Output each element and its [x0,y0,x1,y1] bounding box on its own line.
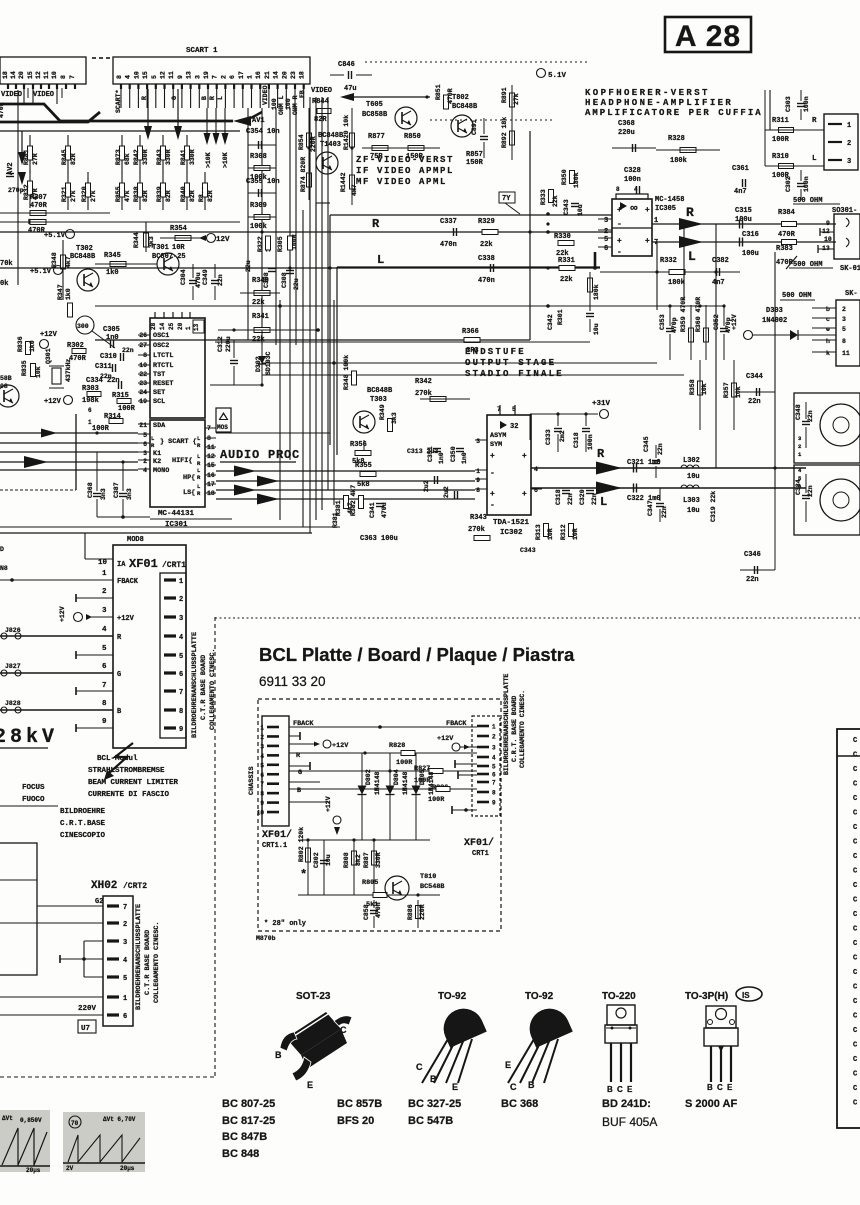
svg-text:COLLEGAMENTO CINESC.: COLLEGAMENTO CINESC. [519,690,526,768]
svg-text:C303: C303 [785,96,792,112]
svg-text:6: 6 [604,245,608,253]
svg-text:100R: 100R [428,796,445,804]
svg-text:E: E [452,1082,458,1092]
svg-text:3: 3 [476,438,480,445]
svg-text:R: R [197,460,201,467]
svg-text:C: C [853,1056,857,1064]
svg-text:L: L [197,435,201,442]
svg-text:R344: R344 [133,232,140,248]
svg-text:C: C [853,1013,857,1021]
svg-text:R330: R330 [554,233,571,241]
svg-text:T302: T302 [76,245,93,253]
svg-text:C343: C343 [563,199,570,215]
svg-text:FOCUS: FOCUS [22,784,45,792]
svg-text:330R: 330R [375,852,382,868]
svg-text:9: 9 [260,800,264,807]
svg-text:C: C [853,1027,857,1035]
svg-text:10: 10 [51,71,58,79]
svg-text:C: C [510,1082,517,1092]
svg-text:U7: U7 [81,1025,90,1033]
svg-text:2: 2 [492,734,496,741]
svg-text:C341: C341 [369,502,376,518]
svg-text:32: 32 [510,423,518,431]
svg-text:12: 12 [160,71,167,79]
svg-text:1n0: 1n0 [461,452,468,464]
svg-text:+31V: +31V [592,400,611,408]
svg-text:R840: R840 [180,186,187,202]
svg-text:E: E [307,1080,313,1090]
svg-text:10R: 10R [172,244,185,252]
svg-text:R873: R873 [115,149,122,165]
svg-text:R850: R850 [404,133,421,141]
svg-text:C: C [853,984,857,992]
svg-text:R: R [117,634,122,642]
svg-text:R: R [209,96,216,100]
svg-text:C354 10n: C354 10n [246,128,280,136]
svg-text:8: 8 [616,186,620,193]
svg-text:R842: R842 [133,149,140,165]
svg-text:100n: 100n [803,176,810,192]
svg-text:R312: R312 [560,524,567,540]
svg-text:BILDROEHRENANSCHLUSSPLATTE: BILDROEHRENANSCHLUSSPLATTE [191,632,199,738]
svg-text:C: C [853,737,857,745]
svg-text:IC301: IC301 [165,521,188,529]
svg-text:AMPLIFICATORE PER CUFFIA: AMPLIFICATORE PER CUFFIA [585,108,763,118]
svg-text:5: 5 [102,645,107,653]
svg-text:XF01: XF01 [129,557,158,571]
svg-text:4: 4 [143,467,147,474]
svg-text:C: C [717,1083,723,1092]
svg-text:C350: C350 [450,446,457,462]
svg-text:C: C [853,998,857,1006]
svg-text:IC305: IC305 [655,205,676,213]
svg-text:8: 8 [116,75,123,79]
svg-text:470R: 470R [69,355,87,363]
svg-text:N8: N8 [0,565,8,572]
svg-text:3n3: 3n3 [100,488,107,500]
svg-text:R1420 10k: R1420 10k [343,115,350,150]
svg-text:C: C [853,911,857,919]
svg-text:XF01/: XF01/ [464,837,494,849]
svg-text:C: C [853,1042,857,1050]
svg-text:MOS: MOS [217,424,228,431]
svg-text:22n: 22n [661,506,668,518]
svg-text:6911 33 20: 6911 33 20 [259,674,326,689]
svg-text:10k: 10k [701,383,708,395]
svg-text:>10K: >10K [205,152,212,168]
svg-text:FB: FB [299,90,306,98]
svg-text:CINESCOPIO: CINESCOPIO [60,832,106,840]
svg-text:22u: 22u [245,260,252,272]
svg-text:BC 817-25: BC 817-25 [222,1115,275,1127]
svg-text:C345: C345 [643,436,650,452]
svg-text:+12V: +12V [59,606,66,622]
svg-text:BC 847B: BC 847B [222,1131,267,1143]
svg-text:C387: C387 [113,482,120,498]
svg-text:+12V: +12V [437,735,454,743]
svg-text:500 OHM: 500 OHM [782,292,811,300]
svg-text:C: C [853,897,857,905]
svg-text:R874 820R: R874 820R [300,157,307,192]
svg-text:SDA: SDA [153,422,166,430]
svg-text:KOPFHOERER-VERST: KOPFHOERER-VERST [585,88,710,98]
svg-text:e: e [826,326,830,333]
svg-text:R887: R887 [363,852,370,868]
svg-text:L: L [217,96,224,100]
svg-text:27k: 27k [70,190,77,202]
svg-text:STADIO FINALE: STADIO FINALE [465,369,564,379]
svg-text:E: E [727,1083,733,1092]
svg-text:IA: IA [117,561,126,569]
svg-text:6: 6 [123,1013,127,1021]
svg-text:2: 2 [123,921,127,929]
svg-text:C363 100u: C363 100u [360,535,398,543]
svg-text:2: 2 [798,443,801,450]
svg-text:3: 3 [260,743,264,750]
svg-text:FBACK: FBACK [446,720,467,728]
svg-text:BILDROEHRENANSCHLUSSPLATTE: BILDROEHRENANSCHLUSSPLATTE [503,673,510,775]
svg-text:1k0: 1k0 [29,340,36,352]
svg-text:C361: C361 [732,165,749,173]
svg-text:68k: 68k [124,153,131,165]
svg-text:C: C [853,1085,857,1093]
svg-text:1: 1 [847,122,851,130]
svg-text:25: 25 [168,322,175,330]
svg-text:C334 22n: C334 22n [86,377,120,385]
svg-text:180k: 180k [670,157,687,165]
svg-text:R321: R321 [61,186,68,202]
svg-text:C: C [853,810,857,818]
svg-text:R851: R851 [435,84,442,100]
svg-text:OHM L: OHM L [278,95,285,115]
svg-text:TO-92: TO-92 [525,991,554,1002]
svg-text:OSC2: OSC2 [153,342,169,350]
svg-text:2: 2 [179,596,183,604]
svg-text:C: C [853,795,857,803]
svg-text:*: * [300,868,307,882]
svg-text:G2: G2 [95,898,103,906]
svg-text:RTCTL: RTCTL [153,362,173,370]
svg-text:SOT-23: SOT-23 [296,991,331,1002]
svg-text:13: 13 [186,71,193,79]
svg-text:220R: 220R [419,904,426,920]
svg-text:XH02: XH02 [91,880,117,892]
svg-text:1: 1 [123,995,127,1003]
svg-text:VIDEO: VIDEO [311,87,332,95]
svg-text:* 28" only: * 28" only [264,920,307,928]
svg-text:4: 4 [102,626,107,634]
svg-text:R836: R836 [17,336,24,352]
svg-text:R8..: R8.. [198,186,205,202]
svg-text:-: - [617,248,622,257]
svg-text:330R: 330R [189,149,196,165]
svg-text:C353: C353 [659,314,666,330]
svg-text:R844: R844 [312,98,329,106]
svg-text:C: C [853,853,857,861]
svg-text:R308: R308 [250,153,267,161]
svg-text:10k: 10k [35,366,42,378]
svg-text:5: 5 [151,75,158,79]
svg-text:R333: R333 [540,189,547,205]
svg-text:180k: 180k [668,279,685,287]
svg-text:C308: C308 [281,272,288,288]
svg-text:MOD8: MOD8 [127,536,144,544]
svg-text:C: C [853,766,857,774]
svg-text:R347: R347 [57,284,64,300]
svg-text:100R: 100R [118,405,136,413]
svg-text:330R: 330R [142,149,149,165]
svg-text:C: C [416,1062,423,1072]
svg-text:1: 1 [260,725,264,732]
svg-text:22n: 22n [217,274,224,286]
svg-text:} SCART {: } SCART { [160,438,197,446]
svg-text:R322: R322 [257,236,264,252]
svg-text:R359 470R: R359 470R [680,297,687,332]
svg-text:C312: C312 [217,336,224,352]
svg-text:TO-92: TO-92 [438,991,467,1002]
svg-text:100R: 100R [772,136,790,144]
svg-text:G: G [298,769,302,777]
svg-text:R: R [197,490,201,497]
svg-text:R328: R328 [668,135,685,143]
svg-text:MONO: MONO [153,467,169,475]
svg-text:7: 7 [654,239,658,247]
svg-text:k: k [826,350,830,357]
svg-text:22k: 22k [560,276,573,284]
svg-text:28: 28 [150,322,157,330]
svg-text:R341: R341 [252,313,269,321]
svg-text:3: 3 [143,450,147,457]
svg-text:14: 14 [159,322,166,330]
svg-text:T1403: T1403 [320,141,341,149]
svg-text:1: 1 [179,578,183,586]
svg-text:+: + [645,237,650,246]
svg-text:VIDEO: VIDEO [33,91,54,99]
svg-text:C316: C316 [742,231,759,239]
svg-text:C349: C349 [202,269,209,285]
svg-text:16: 16 [255,71,262,79]
svg-text:BC848B: BC848B [452,103,478,111]
svg-text:R841: R841 [180,149,187,165]
svg-text:300: 300 [77,323,89,330]
svg-text:2m2: 2m2 [559,430,566,442]
svg-text:VIDEO: VIDEO [1,91,22,99]
svg-text:R331: R331 [558,257,575,265]
svg-text:100R: 100R [396,759,413,767]
svg-text:+12V: +12V [44,398,62,406]
svg-text:470p: 470p [725,317,732,333]
svg-text:R345: R345 [104,252,121,260]
svg-text:10u: 10u [325,854,332,866]
svg-text:R307: R307 [30,194,47,202]
svg-text:R358: R358 [689,379,696,395]
svg-text:C: C [853,969,857,977]
svg-text:12: 12 [35,71,42,79]
svg-text:C802: C802 [313,852,320,868]
svg-text:6: 6 [179,671,183,679]
svg-text:L: L [688,249,696,264]
svg-text:270k: 270k [468,526,485,534]
svg-text:LTCTL: LTCTL [153,352,173,360]
svg-text:ZF-VIDEO-VERST: ZF-VIDEO-VERST [356,155,454,165]
svg-text:100n: 100n [624,176,641,184]
svg-text:470u: 470u [195,272,202,288]
svg-text:B: B [707,1083,713,1092]
svg-text:C318: C318 [573,432,580,448]
svg-text:21: 21 [264,71,271,79]
svg-text:>10K: >10K [222,152,229,168]
svg-text:BC858B: BC858B [362,111,388,119]
svg-text:c: c [826,316,830,323]
svg-text:470p: 470p [671,317,678,333]
svg-text:6: 6 [229,75,236,79]
svg-text:11: 11 [43,71,50,79]
svg-text:470R: 470R [28,227,46,235]
svg-text:C: C [853,839,857,847]
svg-text:C352: C352 [713,314,720,330]
svg-text:82R: 82R [207,190,214,202]
svg-text:22n: 22n [567,493,574,505]
svg-text:COLLEGAMENTO CINESC.: COLLEGAMENTO CINESC. [153,921,161,1003]
svg-text:L: L [377,253,384,267]
svg-text:b: b [826,306,830,313]
svg-text:HP{: HP{ [183,474,195,482]
svg-text:28kV: 28kV [0,726,58,749]
svg-text:BC 547B: BC 547B [408,1115,453,1127]
svg-text:R356: R356 [350,441,367,449]
svg-text:7: 7 [492,780,496,787]
svg-text:22k: 22k [552,195,559,207]
svg-text:100n: 100n [587,434,594,450]
svg-text:4k7: 4k7 [65,256,72,268]
svg-text:L: L [600,495,607,509]
svg-text:58B: 58B [0,375,12,382]
svg-text:5: 5 [492,764,496,771]
svg-text:/CRT1: /CRT1 [162,561,186,570]
svg-text:SK-: SK- [845,290,858,298]
svg-text:6: 6 [492,772,496,779]
svg-text:R854: R854 [298,134,305,150]
svg-text:1n0: 1n0 [438,452,445,464]
svg-text:C337: C337 [440,218,457,226]
svg-text:100u: 100u [735,216,752,224]
svg-text:11: 11 [168,71,175,79]
svg-text:L302: L302 [683,457,700,465]
svg-text:10u: 10u [577,204,584,216]
svg-text:8: 8 [102,700,107,708]
svg-text:ASYM: ASYM [490,432,506,440]
svg-text:R311: R311 [772,117,789,125]
svg-text:C891: C891 [471,119,478,135]
svg-text:HIFI{: HIFI{ [172,457,192,465]
svg-text:4: 4 [534,466,538,473]
svg-text:18: 18 [2,71,9,79]
svg-text:2u2: 2u2 [443,486,450,498]
svg-text:R843: R843 [156,149,163,165]
svg-text:C: C [853,955,857,963]
svg-text:C.R.T. BASE BOARD: C.R.T. BASE BOARD [511,696,518,762]
svg-text:MF VIDEO APML: MF VIDEO APML [356,177,447,187]
svg-text:R329: R329 [478,218,495,226]
svg-text:2u2: 2u2 [423,480,430,492]
svg-text:C302: C302 [785,176,792,192]
svg-text:R857: R857 [466,151,483,159]
svg-text:E: E [505,1060,511,1070]
svg-text:B: B [528,1080,535,1090]
svg-text:R832: R832 [23,184,30,200]
svg-text:ENDSTUFE: ENDSTUFE [465,347,526,357]
svg-text:C: C [340,1025,347,1035]
svg-text:C342: C342 [547,314,554,330]
svg-text:R892 18k: R892 18k [501,117,508,148]
svg-text:R802 120k: R802 120k [298,827,305,862]
svg-text:2: 2 [847,140,851,148]
svg-text:R332: R332 [660,257,677,265]
svg-text:D802: D802 [365,769,372,785]
svg-text:E: E [627,1085,633,1094]
svg-text:1N4148: 1N4148 [428,771,435,795]
svg-text:R309: R309 [250,202,267,210]
svg-text:3: 3 [604,217,608,225]
svg-text:C: C [617,1085,623,1094]
svg-text:C: C [853,940,857,948]
svg-text:1N4148: 1N4148 [374,771,381,795]
svg-text:R877: R877 [368,133,385,141]
svg-text:2V: 2V [66,1165,74,1172]
svg-text:R805: R805 [362,879,378,887]
svg-text:C318: C318 [555,489,562,505]
svg-text:6: 6 [102,663,107,671]
svg-text:470n: 470n [375,902,382,918]
svg-text:+12V: +12V [117,615,135,623]
svg-text:HEADPHONE-AMPLIFIER: HEADPHONE-AMPLIFIER [585,98,733,108]
svg-text:R: R [151,442,155,449]
svg-text:C313 2u2: C313 2u2 [407,448,438,455]
svg-text:180k: 180k [573,172,580,188]
svg-text:5: 5 [260,762,264,769]
svg-text:4: 4 [123,957,127,965]
svg-text:C305: C305 [103,326,120,334]
svg-text:7: 7 [212,75,219,79]
svg-text:C315: C315 [735,207,752,215]
svg-text:10: 10 [98,559,108,567]
svg-text:3n3: 3n3 [126,488,133,500]
svg-text:9: 9 [179,726,183,734]
svg-text:R350: R350 [561,169,568,185]
svg-text:SK-01: SK-01 [840,265,860,273]
svg-text:L303: L303 [683,497,700,505]
svg-text:MC-44131: MC-44131 [158,510,195,518]
svg-text:C: C [853,1100,857,1108]
svg-text:C343: C343 [520,547,536,554]
svg-text:C.T.R BASE BOARD: C.T.R BASE BOARD [144,930,152,995]
svg-text:0,850V: 0,850V [20,1117,42,1124]
svg-text:BEAM CURRENT LIMITER: BEAM CURRENT LIMITER [88,779,179,787]
svg-text:27k: 27k [90,190,97,202]
svg-text:CRT1: CRT1 [472,850,489,858]
svg-text:+: + [645,206,650,215]
svg-text:8: 8 [260,791,264,798]
svg-text:T605: T605 [366,101,383,109]
svg-text:C346: C346 [744,551,761,559]
svg-text:+: + [490,490,495,499]
svg-text:220V: 220V [78,1005,97,1013]
svg-text:D804: D804 [393,769,400,785]
svg-text:+12V: +12V [40,331,58,339]
svg-text:C: C [853,781,857,789]
svg-text:C310: C310 [100,353,117,361]
svg-text:7: 7 [179,689,183,697]
